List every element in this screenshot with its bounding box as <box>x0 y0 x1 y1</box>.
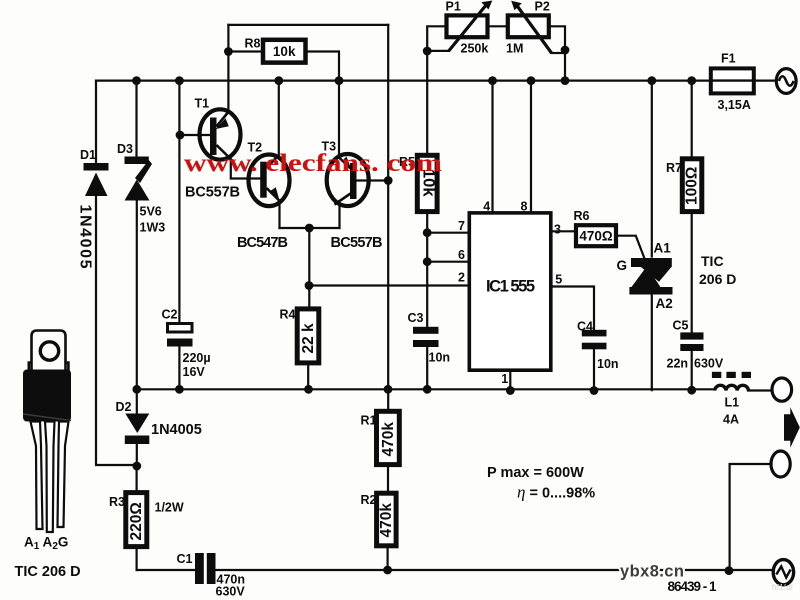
wire fuse to ac <box>754 79 777 81</box>
wire R8 right lead <box>306 52 339 81</box>
svg-text:ybx8.cn: ybx8.cn <box>620 563 684 581</box>
resistor R4 box <box>297 309 319 363</box>
wire pin4 <box>491 81 493 213</box>
wire C2 vertical branch <box>178 81 180 390</box>
svg-text:C1: C1 <box>177 552 193 566</box>
svg-text:630V: 630V <box>216 585 246 599</box>
svg-text:1M: 1M <box>506 42 523 56</box>
wire D2 leads <box>136 389 138 466</box>
svg-text:22n: 22n <box>667 357 689 371</box>
capacitor C3 <box>413 327 439 347</box>
svg-text:1N4005: 1N4005 <box>151 422 202 438</box>
wire R3 leads <box>136 466 138 570</box>
svg-text:220µ: 220µ <box>183 351 211 365</box>
svg-text:16V: 16V <box>183 365 206 379</box>
wire P1 wiper tail <box>428 50 449 52</box>
svg-text:BC557B: BC557B <box>185 185 240 201</box>
svg-text:TIC: TIC <box>701 253 724 269</box>
resistor R7 box <box>682 159 702 212</box>
svg-text:3: 3 <box>554 223 561 237</box>
svg-text:η = 0....98%: η = 0....98% <box>517 483 595 502</box>
node dot C3 bottom <box>423 385 432 394</box>
AC source top <box>776 69 796 94</box>
node dot R7 top <box>687 76 696 85</box>
wire main top rail y=81 <box>96 79 711 81</box>
svg-text:R4: R4 <box>280 308 296 322</box>
triac TIC206D symbol <box>629 258 672 295</box>
svg-text:1N4005: 1N4005 <box>77 205 94 269</box>
node dot R4 bottom <box>304 385 313 394</box>
inductor L1 coil <box>715 385 749 390</box>
svg-text:R7: R7 <box>666 161 682 175</box>
node dot T3/R8 <box>335 76 344 85</box>
wire T2 emitter down <box>278 203 280 229</box>
svg-text:L1: L1 <box>725 396 740 410</box>
node dot T2T3 emitter rail <box>305 224 314 233</box>
wire rail2 coil to lamp <box>748 389 772 391</box>
resistor R2 box <box>377 493 397 546</box>
svg-text:470Ω: 470Ω <box>579 229 613 244</box>
resistor R3 box <box>126 493 147 547</box>
svg-text:10n: 10n <box>597 357 619 371</box>
svg-text:D2: D2 <box>116 400 132 414</box>
svg-text:C5: C5 <box>673 319 689 333</box>
potentiometer P1 wiper arrow <box>449 1 493 51</box>
node dot P2 right <box>561 76 570 85</box>
wire C4 bottom <box>593 349 595 391</box>
wire emitter rail T2-T3 <box>280 227 340 229</box>
svg-text:4A: 4A <box>723 413 739 427</box>
node dot P1 left wiper <box>423 47 432 56</box>
wire R1 to R2 <box>387 465 389 493</box>
wire T2 collector up <box>278 81 280 155</box>
wire pin6 <box>427 261 469 263</box>
svg-text:5: 5 <box>555 273 562 287</box>
svg-text:IC1 555: IC1 555 <box>486 278 535 296</box>
wire D3 top lead <box>135 81 137 157</box>
wire T3 emitter up <box>338 81 340 156</box>
svg-text:R3: R3 <box>109 495 125 509</box>
terminal circle out2 <box>771 451 790 477</box>
wire pin3 <box>551 230 576 232</box>
wire D1 branch left vertical <box>95 81 97 164</box>
wire P2 right terminal <box>549 26 565 80</box>
svg-text:1W3: 1W3 <box>140 221 166 235</box>
svg-text:A1 A2G: A1 A2G <box>24 535 68 553</box>
svg-text:D1: D1 <box>80 148 96 162</box>
wire P2 wiper tail <box>552 52 565 54</box>
svg-text:P2: P2 <box>535 0 550 14</box>
wire T1 collector to T2 base <box>231 162 261 179</box>
node dot D2 top rail <box>132 385 141 394</box>
wire rail2 mid horizontal <box>137 388 715 390</box>
wire T3 collector down <box>338 205 340 229</box>
svg-text:7: 7 <box>458 219 465 233</box>
svg-text:220Ω: 220Ω <box>128 502 145 540</box>
wire R8 left lead <box>228 50 262 52</box>
node dot T2 collector <box>274 76 283 85</box>
svg-text:hf1!di: hf1!di <box>772 582 793 592</box>
wire T1 base <box>180 134 211 136</box>
svg-text:C3: C3 <box>408 311 424 325</box>
diode D2 <box>125 414 150 445</box>
svg-text:4: 4 <box>483 200 490 214</box>
svg-text:TIC 206 D: TIC 206 D <box>15 564 81 580</box>
svg-text:8: 8 <box>521 200 528 214</box>
IC1 555 box <box>469 213 551 370</box>
diode D3 zener <box>125 157 153 201</box>
wire pin1 <box>509 370 511 391</box>
wire pin5 to C4 <box>551 287 594 331</box>
svg-text:630V: 630V <box>694 357 724 371</box>
transistor T1 <box>200 109 241 160</box>
wire P1-P2 link <box>488 25 508 27</box>
wire T3 base to junction <box>357 179 388 181</box>
svg-text:R8: R8 <box>245 37 261 51</box>
svg-text:22 k: 22 k <box>300 323 317 354</box>
wire R2 bottom <box>387 546 389 570</box>
svg-text:1: 1 <box>501 372 508 386</box>
load arrow <box>784 407 800 448</box>
svg-text:C2: C2 <box>162 308 178 322</box>
potentiometer P2 wiper arrow <box>511 1 551 53</box>
node dot pin8 <box>527 76 536 85</box>
node dot D3 top <box>132 76 141 85</box>
wire R5 bottom to C3 <box>426 212 428 389</box>
node dot C2 top <box>175 76 184 85</box>
TO-220 package drawing <box>29 331 69 372</box>
svg-text:F1: F1 <box>721 52 736 66</box>
node dot pin2/R4 <box>305 281 314 290</box>
wire R7 branch <box>691 81 693 391</box>
node dot R1 top rail <box>384 385 393 394</box>
svg-text:C4: C4 <box>577 320 593 334</box>
fuse F1 <box>711 68 754 93</box>
wire P1 left terminal <box>427 26 446 155</box>
svg-text:A2: A2 <box>656 296 673 311</box>
svg-text:10k: 10k <box>273 44 296 59</box>
svg-text:R6: R6 <box>574 209 590 223</box>
node dot T1 base <box>176 131 185 140</box>
node dot C2 bottom <box>175 385 184 394</box>
svg-text:3,15A: 3,15A <box>718 98 751 112</box>
node dot D2 bottom <box>132 462 141 471</box>
svg-text:86439 - 1: 86439 - 1 <box>668 579 717 594</box>
TO-220 legs <box>31 422 69 533</box>
svg-text:T1: T1 <box>195 97 210 111</box>
potentiometer P1 box <box>447 15 488 37</box>
svg-text:BC557B: BC557B <box>331 235 383 251</box>
svg-text:5V6: 5V6 <box>140 205 162 219</box>
resistor R5 box <box>417 155 437 211</box>
wire T3 base vertical <box>387 25 389 181</box>
wire bottom rail <box>137 569 774 571</box>
wire R6 to gate <box>616 236 645 259</box>
node dot R2 bottom rail <box>383 566 392 575</box>
svg-text:2: 2 <box>458 271 465 285</box>
wire top bridge y=25 <box>228 24 388 26</box>
node dot C4 bottom <box>590 386 599 395</box>
capacitor C4 <box>582 330 607 350</box>
wire D1 bottom to D2 junction <box>96 196 137 465</box>
inductor L1 core <box>712 372 751 378</box>
svg-text:100Ω: 100Ω <box>684 167 701 205</box>
AC source bottom <box>773 560 793 585</box>
svg-text:R1: R1 <box>361 414 377 428</box>
svg-text:250k: 250k <box>461 42 489 56</box>
wire pin8 <box>530 81 532 213</box>
resistor R8 box <box>263 40 306 63</box>
svg-text:206 D: 206 D <box>699 271 736 287</box>
wire T3 base junction down to R1 <box>387 181 389 412</box>
svg-text:BC547B: BC547B <box>237 235 288 251</box>
wire circle2 branch <box>730 464 772 571</box>
svg-text:1/2W: 1/2W <box>155 501 184 515</box>
node dot pin6 <box>423 257 432 266</box>
svg-text:P max = 600W: P max = 600W <box>487 465 584 481</box>
node dot pin7 <box>423 228 432 237</box>
diode D1 <box>84 163 109 196</box>
svg-text:10n: 10n <box>429 351 451 365</box>
svg-text:P1: P1 <box>446 0 461 14</box>
node dot T3 base right <box>384 176 393 185</box>
wire triac vertical <box>651 81 653 391</box>
node dot pin1 <box>506 386 515 395</box>
svg-text:www. elecfans. com: www. elecfans. com <box>184 150 442 177</box>
wire T1 emitter up <box>227 25 229 109</box>
svg-text:470k: 470k <box>380 422 397 457</box>
wire pin2 line <box>309 284 469 286</box>
svg-text:470k: 470k <box>378 503 395 538</box>
svg-text:R2: R2 <box>361 493 377 507</box>
wire R4 branch vertical <box>308 228 309 389</box>
resistor R6 box <box>576 225 616 246</box>
potentiometer P2 box <box>508 15 549 37</box>
node dot pin4 <box>488 76 497 85</box>
capacitor C2 electrolytic <box>167 324 193 347</box>
capacitor C1 <box>195 553 216 584</box>
transistor T3 mirrored <box>327 154 369 206</box>
svg-text:G: G <box>617 258 628 273</box>
svg-text:A1: A1 <box>654 241 672 256</box>
svg-text:D3: D3 <box>117 142 133 156</box>
node dot out2 rail <box>725 566 734 575</box>
terminal circle out1 <box>772 378 792 401</box>
resistor R1 box <box>377 411 400 464</box>
svg-text:6: 6 <box>458 248 465 262</box>
capacitor C5 <box>680 332 703 351</box>
transistor T2 <box>249 155 290 207</box>
node dot C5 bottom <box>687 386 696 395</box>
node dot R8 left <box>224 47 233 56</box>
wire pin7 <box>427 232 469 234</box>
node dot P2 right wiper <box>561 46 570 55</box>
wire D3 bottom lead <box>136 200 138 389</box>
node dot triac top <box>647 76 656 85</box>
